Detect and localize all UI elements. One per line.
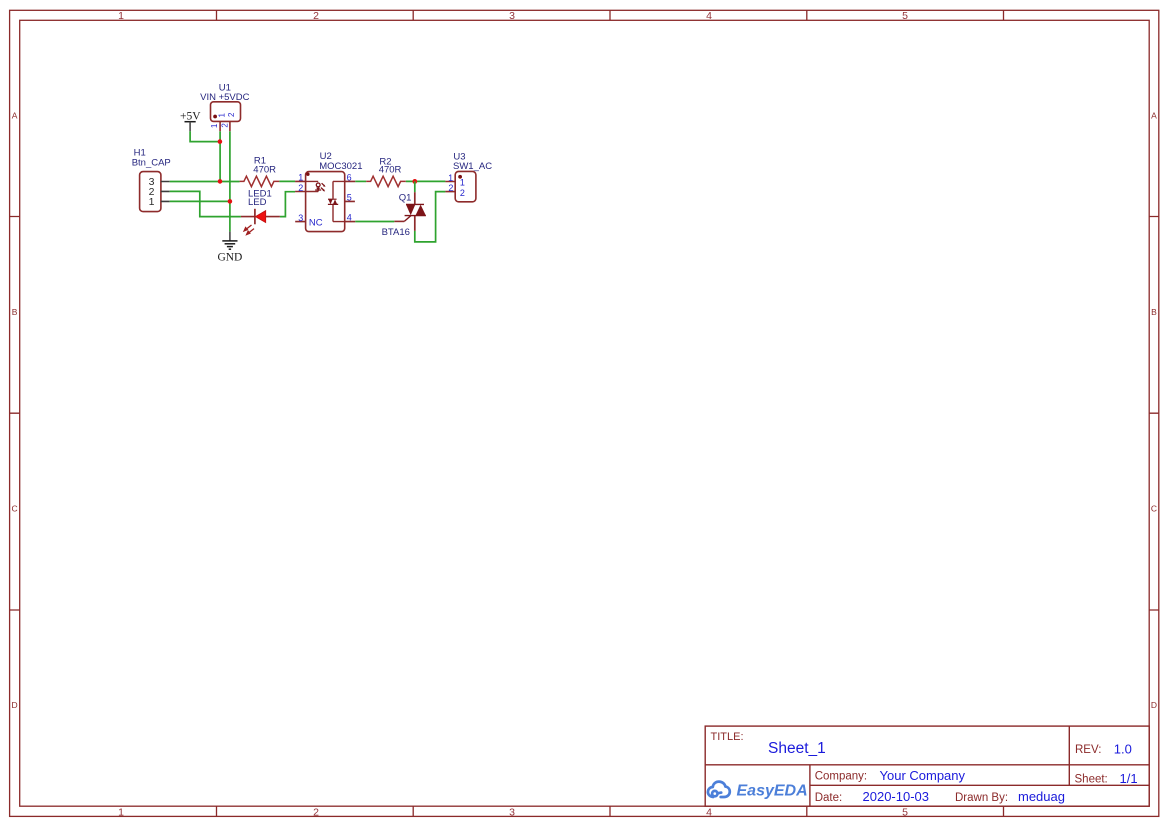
wire U1 pin2 down to GND — [229, 131, 231, 231]
svg-text:470R: 470R — [253, 164, 276, 175]
svg-text:C: C — [12, 504, 18, 514]
connector H1 labels — [132, 147, 171, 168]
svg-text:5: 5 — [347, 193, 352, 203]
svg-text:1: 1 — [210, 123, 219, 128]
U2 internal LED — [315, 183, 325, 192]
wire Q1 bottom to U3 pin2 — [415, 192, 446, 242]
svg-text:BTA16: BTA16 — [382, 227, 410, 238]
connector U1 labels — [200, 82, 250, 103]
svg-text:GND: GND — [217, 251, 242, 263]
ruler numbers top — [118, 10, 908, 22]
svg-text:LED: LED — [248, 197, 267, 208]
triac Q1 — [394, 192, 426, 231]
svg-text:470R: 470R — [379, 164, 402, 175]
ruler letters left — [12, 110, 18, 710]
svg-text:2020-10-03: 2020-10-03 — [863, 789, 930, 804]
title block lines — [705, 726, 1149, 806]
svg-text:1: 1 — [448, 173, 453, 183]
junction node +5V — [218, 139, 223, 144]
svg-text:D: D — [12, 700, 18, 710]
resistor R2 labels — [379, 156, 402, 175]
svg-text:REV:: REV: — [1075, 744, 1101, 756]
svg-text:Your Company: Your Company — [880, 768, 966, 783]
svg-text:2: 2 — [448, 183, 453, 193]
svg-text:3: 3 — [509, 10, 515, 22]
svg-text:TITLE:: TITLE: — [711, 731, 744, 743]
title block labels — [711, 731, 744, 743]
svg-text:4: 4 — [706, 10, 712, 22]
svg-text:D: D — [1151, 700, 1157, 710]
wire H1 pin3 to R1 — [170, 181, 240, 183]
svg-text:Company:: Company: — [815, 770, 867, 782]
svg-text:1: 1 — [149, 196, 155, 208]
svg-text:SW1_AC: SW1_AC — [453, 161, 492, 172]
svg-text:1: 1 — [217, 112, 226, 117]
svg-text:4: 4 — [706, 806, 712, 818]
wire R2 to U3 pin1 — [406, 180, 446, 182]
svg-text:B: B — [12, 307, 18, 317]
svg-text:MOC3021: MOC3021 — [319, 161, 362, 172]
diode LED1 — [241, 209, 280, 235]
svg-text:6: 6 — [347, 172, 352, 182]
junction node pin1 — [228, 199, 233, 204]
LED1 labels — [248, 189, 272, 209]
connector H1 — [140, 172, 170, 212]
svg-text:1: 1 — [118, 806, 124, 818]
svg-text:Q1: Q1 — [399, 193, 412, 204]
svg-text:Sheet_1: Sheet_1 — [768, 740, 826, 757]
svg-text:1/1: 1/1 — [1120, 771, 1138, 786]
resistor R1 labels — [253, 155, 276, 175]
svg-text:3: 3 — [298, 213, 303, 223]
svg-text:Drawn By:: Drawn By: — [955, 792, 1008, 804]
optocoupler U2 labels — [319, 151, 362, 172]
svg-text:B: B — [1151, 307, 1157, 317]
connector U1 — [211, 102, 241, 132]
svg-text:4: 4 — [347, 213, 352, 223]
svg-text:Date:: Date: — [815, 792, 843, 804]
power flag +5V — [180, 111, 201, 132]
svg-text:NC: NC — [309, 217, 323, 228]
svg-text:Btn_CAP: Btn_CAP — [132, 157, 171, 168]
svg-text:2: 2 — [460, 188, 465, 198]
U2 pin numbers — [298, 172, 352, 223]
svg-text:5: 5 — [902, 10, 908, 22]
wire R1 to U2 pin1 — [279, 180, 295, 182]
resistor R1 — [240, 176, 280, 186]
connector U3 — [445, 171, 476, 201]
svg-text:2: 2 — [227, 112, 236, 117]
wire LED to U2 pin2 — [280, 192, 295, 217]
title block values — [768, 740, 1138, 804]
svg-text:2: 2 — [313, 806, 319, 818]
svg-text:Sheet:: Sheet: — [1075, 773, 1108, 785]
svg-text:1: 1 — [460, 177, 465, 187]
ground GND — [217, 232, 242, 264]
ruler letters right — [1151, 110, 1157, 710]
wire H1 pin2 to LED — [170, 191, 241, 216]
svg-text:1: 1 — [298, 172, 303, 182]
svg-text:C: C — [1151, 504, 1157, 514]
svg-text:1: 1 — [118, 10, 124, 22]
wire U2 pin4 to Q1 gate — [355, 221, 394, 223]
U1 pin numbers — [210, 112, 236, 128]
connector U3 labels — [453, 151, 492, 172]
wire U2 pin6 to R2 — [355, 180, 366, 182]
svg-text:2: 2 — [221, 123, 230, 128]
svg-text:1.0: 1.0 — [1114, 741, 1132, 756]
EasyEDA logo — [708, 782, 808, 800]
U3 pin numbers outside — [448, 173, 453, 193]
wire +5V to node — [190, 131, 220, 141]
optocoupler U2 — [295, 172, 355, 232]
ruler numbers bottom — [118, 806, 908, 818]
svg-text:meduag: meduag — [1018, 789, 1065, 804]
svg-text:A: A — [12, 110, 18, 120]
svg-text:2: 2 — [298, 183, 303, 193]
U2 internal triac — [328, 199, 338, 204]
svg-text:3: 3 — [509, 806, 515, 818]
wire junction down to Q1 — [414, 181, 416, 192]
resistor R2 — [366, 176, 406, 186]
junction node pin3 — [218, 179, 223, 184]
wire H1 pin1 — [170, 200, 230, 202]
svg-text:A: A — [1151, 110, 1157, 120]
svg-text:+5V: +5V — [180, 111, 201, 123]
junction node R2/Q1 — [412, 179, 417, 184]
svg-text:2: 2 — [313, 10, 319, 22]
svg-text:EasyEDA: EasyEDA — [737, 783, 808, 800]
wire U1 pin1 down — [219, 131, 221, 181]
svg-text:5: 5 — [902, 806, 908, 818]
